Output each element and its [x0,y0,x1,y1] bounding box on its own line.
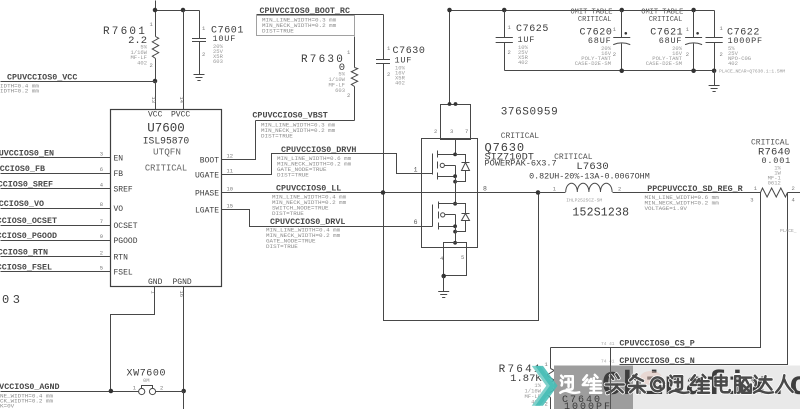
node junction AGND / GND [109,389,114,394]
svg-text:2: 2 [150,62,153,69]
svg-text:PGND: PGND [173,278,192,287]
capacitor C7620 [620,8,625,13]
svg-text:74 41: 74 41 [601,341,615,347]
svg-text:603: 603 [213,58,223,65]
net CPUVCCIOS0_CS_N kelvin [620,193,788,365]
svg-text:2: 2 [686,51,689,58]
net CPUVCCIOS0_BOOT_RC [257,14,384,16]
svg-text:0612: 0612 [768,180,781,187]
svg-text:VO: VO [114,205,124,214]
svg-text:DIST=TRUE: DIST=TRUE [277,172,309,179]
svg-text:3: 3 [100,150,103,157]
svg-text:152S1238: 152S1238 [572,207,629,220]
svg-text:CPUVCCIOS0_CS_P: CPUVCCIOS0_CS_P [619,338,694,348]
svg-text:2: 2 [202,51,205,58]
svg-text:IDTH=0.2 mm: IDTH=0.2 mm [0,88,39,95]
svg-text:2: 2 [613,51,616,58]
node junction LL / C7630 [381,190,386,195]
svg-text:CASE-D2E-SM: CASE-D2E-SM [646,60,682,67]
wire top supply bus [450,10,715,12]
svg-text:CRITICAL: CRITICAL [501,132,540,141]
svg-text:DIST=TRUE: DIST=TRUE [262,28,294,35]
resistor R7641 [550,348,552,369]
svg-text:CPUVCCIOS0_DRVL: CPUVCCIOS0_DRVL [270,217,345,227]
svg-text:CPUVCCIOS0_PGOOD: CPUVCCIOS0_PGOOD [0,231,57,241]
node junction PGND [181,389,186,394]
svg-text:VOLTAGE=1.9V: VOLTAGE=1.9V [645,205,688,212]
wire PGND to sheet bottom [183,392,185,409]
svg-text:CPUVCCIOS0_CS_N: CPUVCCIOS0_CS_N [619,356,694,366]
svg-text:PVCC: PVCC [171,111,190,120]
svg-text:15: 15 [227,202,234,209]
ground C7601 [194,74,205,76]
svg-text:CPUVCCIOS0_RTN: CPUVCCIOS0_RTN [0,248,48,258]
wire: VCC feed vertical to pin 13 [155,82,157,110]
svg-text:LGATE: LGATE [195,206,219,215]
svg-text:11: 11 [227,167,234,174]
svg-text:CPUVCCIOS0_FB: CPUVCCIOS0_FB [0,164,45,174]
svg-text:6: 6 [100,166,103,173]
svg-text:14: 14 [178,97,185,104]
svg-text:CPUVCCIOS0_EN: CPUVCCIOS0_EN [0,149,54,159]
svg-text:2: 2 [160,385,163,392]
svg-text:CPUVCCIOS0_VCC: CPUVCCIOS0_VCC [7,73,77,83]
wire: supply feed vertical into R7601 [155,1,157,37]
svg-text:CPUVCCIOS0_LL: CPUVCCIOS0_LL [276,184,341,194]
svg-text:8: 8 [483,186,487,193]
node junction CPUVCCIOS0_VCC [153,79,158,84]
property box BOOT_RC [257,16,355,36]
svg-text:1000PF: 1000PF [564,402,612,409]
svg-text:FB: FB [114,170,124,179]
svg-text:0M: 0M [143,377,150,384]
svg-text:402: 402 [728,60,738,67]
svg-text:5: 5 [461,254,464,261]
watermark teal chevrons [532,366,555,406]
svg-text:3: 3 [450,128,453,135]
svg-text:FSEL: FSEL [114,268,133,277]
svg-text:CPUVCCIOS0_VO: CPUVCCIOS0_VO [0,199,44,209]
ground Q7630 [443,277,445,292]
svg-text:OCSET: OCSET [114,222,138,231]
svg-text:SREF: SREF [114,185,133,194]
svg-text:13: 13 [150,97,157,104]
svg-text:CPUVCCIOS0_SREF: CPUVCCIOS0_SREF [0,180,53,190]
capacitor C7622 [714,11,716,38]
net CPUVCCIOS0_VCC [1,81,156,83]
svg-text:EN: EN [114,154,124,163]
watermark gray band [554,366,633,409]
wire net CPUVCCIOS0_EN stub [1,157,111,159]
wire net CPUVCCIOS0_VO stub [1,208,111,210]
svg-text:K=0V: K=0V [0,403,15,409]
wire: R7601 bottom to VCC net [155,59,157,82]
svg-text:C7625: C7625 [516,24,549,35]
wire lower source to tab [455,227,457,243]
jumper XW7600 [139,388,145,394]
Q7630 lower FET (low side) [455,193,457,204]
svg-text:CPUVCCIOS0_AGND: CPUVCCIOS0_AGND [0,382,60,392]
svg-text:2: 2 [720,51,723,58]
wire GND pin 1 route [111,287,155,392]
svg-text:2: 2 [792,185,795,192]
node junction Q7630 source to ground [441,274,446,279]
watermark text @xunwei diannao daren [651,377,664,391]
svg-text:10: 10 [227,185,234,192]
Q7630 upper FET (high side) [455,140,457,155]
watermark text xunwei toutiao [565,371,573,382]
watermark light band [633,366,800,409]
wire: top horizontal from R7601 node to C7601 [156,10,200,12]
svg-text:CPUVCCIOS0_DRVH: CPUVCCIOS0_DRVH [281,145,356,155]
svg-text:PLACE_: PLACE_ [780,228,797,234]
net CPUVCCIOS0_DRVH [222,154,433,175]
svg-text:RTN: RTN [114,253,129,262]
body diode upper [456,155,466,163]
svg-text:7: 7 [465,128,468,135]
svg-text:7: 7 [100,218,103,225]
svg-text:2: 2 [434,128,437,135]
svg-text:PHASE: PHASE [195,189,219,198]
svg-text:CPUVCCIOS0_OCSET: CPUVCCIOS0_OCSET [0,216,57,226]
svg-text:UTQFN: UTQFN [153,147,181,158]
svg-text:DIST=TRUE: DIST=TRUE [272,210,304,217]
svg-text:03: 03 [2,293,23,307]
svg-text:2: 2 [508,49,511,56]
capacitor C7621 [691,8,696,13]
svg-text:PLACE_NEAR=Q7630.1:1.5MM: PLACE_NEAR=Q7630.1:1.5MM [719,69,785,75]
net CPUVCCIOS0_AGND [1,391,139,393]
net CPUVCCIOS0_VBST [256,120,355,122]
ground cap bank [714,71,716,86]
resistor R7601 [152,37,158,59]
svg-text:U7600: U7600 [147,122,185,136]
wire PGND pin 16 route [183,287,185,392]
svg-text:3: 3 [750,197,753,204]
node junction LL / L7630 [536,190,541,195]
svg-text:POWERPAK-6X3.7: POWERPAK-6X3.7 [485,159,557,169]
capacitor C7640 labels over watermark [610,366,612,409]
wire cap bank bottom rail [505,70,715,72]
net CPUVCCIOS0_CS_P kelvin [551,193,761,348]
svg-text:CRITICAL: CRITICAL [145,164,187,174]
capacitor C7630 [383,15,385,60]
svg-text:PGOOD: PGOOD [114,237,138,246]
wire: PVCC feed vertical to pin 14 [183,11,185,110]
svg-text:CPUVCCIOS0_BOOT_RC: CPUVCCIOS0_BOOT_RC [260,6,350,16]
node junction R7601 top [153,8,158,13]
svg-text:CASE-D2E-SM: CASE-D2E-SM [575,60,611,67]
svg-text:402: 402 [518,59,528,66]
wire BOOT pin to VBST [222,121,256,160]
svg-text:CRITICAL: CRITICAL [578,16,612,24]
svg-text:2: 2 [347,92,350,99]
node junction bus start [447,8,452,13]
capacitor C7640 lead [610,348,612,409]
resistor R7640 current sense [761,188,788,197]
svg-text:DIST=TRUE: DIST=TRUE [266,243,298,250]
svg-text:DIST=TRUE: DIST=TRUE [261,133,293,140]
svg-text:5: 5 [100,264,103,271]
svg-text:2: 2 [618,186,621,193]
node junction PVCC branch [181,8,186,13]
svg-text:2: 2 [100,249,103,256]
transistor Q7630 package outline [422,139,478,248]
svg-text:9: 9 [100,233,103,240]
net CPUVCCIOS0_LL [222,192,539,194]
capacitor C7601 [199,11,201,39]
net CPUVCCIOS0_DRVL [222,210,433,227]
capacitor C7625 [502,8,507,13]
wire net CPUVCCIOS0_FSEL stub [1,271,111,273]
svg-text:CRITICAL: CRITICAL [649,16,683,24]
resistor R7630 [354,37,356,68]
svg-text:1: 1 [414,167,418,174]
svg-text:376S0959: 376S0959 [501,107,559,119]
wire LL loop around Q7630 [384,193,539,321]
svg-text:402: 402 [137,60,147,67]
svg-text:74 41: 74 41 [601,359,615,365]
svg-text:GND: GND [148,278,163,287]
svg-text:BOOT: BOOT [200,156,219,165]
svg-text:6: 6 [414,219,418,226]
svg-text:CPUVCCIOS0_FSEL: CPUVCCIOS0_FSEL [0,263,52,273]
wire net CPUVCCIOS0_OCSET stub [1,225,111,227]
svg-text:603: 603 [335,87,345,94]
svg-text:CPUVCCIOS0_VBST: CPUVCCIOS0_VBST [252,111,327,121]
svg-text:VCC: VCC [148,111,163,120]
svg-text:2: 2 [387,71,390,78]
svg-text:0.82UH-20%-13A-0.0067OHM: 0.82UH-20%-13A-0.0067OHM [529,171,650,181]
wire net CPUVCCIOS0_SREF stub [1,188,111,190]
wire net CPUVCCIOS0_FB stub [1,173,111,175]
svg-text:8: 8 [100,201,103,208]
wire net CPUVCCIOS0_PGOOD stub [1,240,111,242]
Q7630 drain tab box pins 2,3,7 [441,105,471,140]
svg-text:PPCPUVCCIO_SD_REG_R: PPCPUVCCIO_SD_REG_R [647,184,743,194]
body diode lower [456,204,466,214]
inductor L7630 [539,192,566,194]
op-amp U7600 ISL95870 controller body [111,110,222,287]
svg-text:12: 12 [227,152,234,159]
Q7630 source tab box pins 4,5 [444,243,467,276]
svg-text:IHLP2525CZ-SM: IHLP2525CZ-SM [566,197,602,203]
svg-text:ISL95870: ISL95870 [143,136,190,147]
svg-text:UGATE: UGATE [195,171,219,180]
wire upper source to LL [455,177,457,193]
wire supply feed to Q7630 drain [449,11,451,105]
wire net CPUVCCIOS0_RTN stub [1,256,111,258]
svg-text:402: 402 [395,80,405,87]
